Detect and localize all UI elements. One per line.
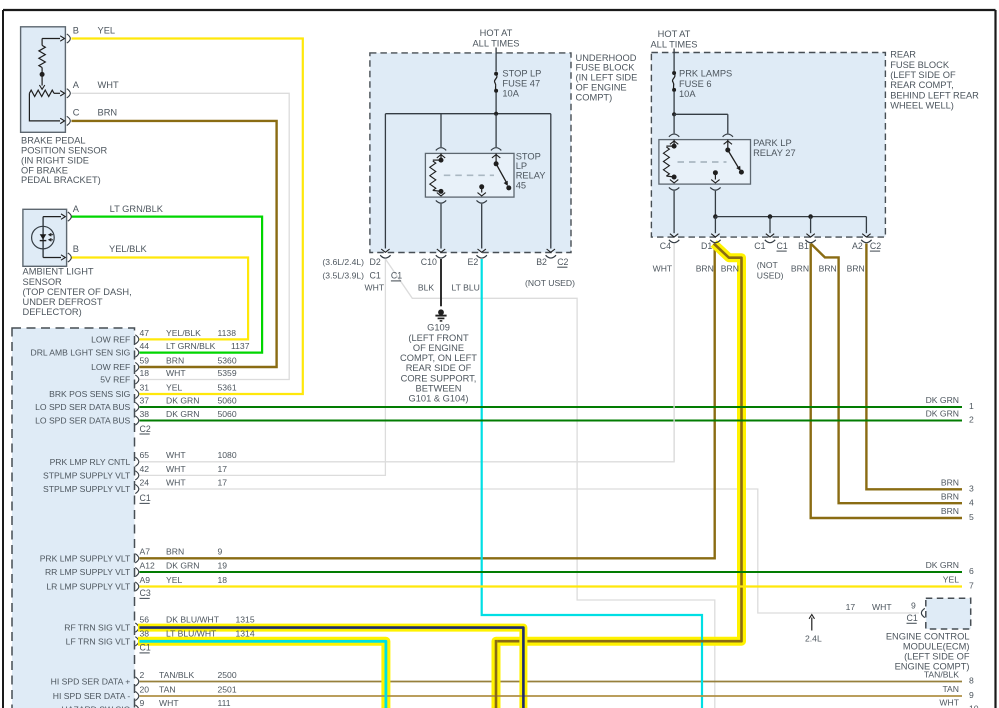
svg-text:(NOT USED): (NOT USED) <box>525 278 575 288</box>
svg-text:BRN: BRN <box>166 355 184 365</box>
svg-text:WHT: WHT <box>166 368 186 378</box>
svg-text:LF TRN SIG VLT: LF TRN SIG VLT <box>66 636 131 646</box>
svg-text:LT BLU/WHT: LT BLU/WHT <box>166 628 217 638</box>
svg-text:TAN: TAN <box>942 684 959 694</box>
svg-text:BRK POS SENS SIG: BRK POS SENS SIG <box>49 389 131 399</box>
svg-text:BRN: BRN <box>941 506 959 516</box>
svg-text:RF TRN SIG VLT: RF TRN SIG VLT <box>64 623 131 633</box>
svg-text:BRN: BRN <box>166 547 184 557</box>
svg-text:FUSE 47: FUSE 47 <box>502 79 540 89</box>
svg-text:HAZARD SW SIG: HAZARD SW SIG <box>62 705 131 708</box>
svg-text:WHT: WHT <box>939 698 959 708</box>
svg-text:BRN: BRN <box>791 264 809 274</box>
svg-text:COMPT): COMPT) <box>576 92 613 102</box>
svg-text:WHT: WHT <box>872 602 892 612</box>
svg-text:WHT: WHT <box>166 450 186 460</box>
svg-text:44: 44 <box>140 341 150 351</box>
svg-text:MODULE(ECM): MODULE(ECM) <box>903 642 970 652</box>
svg-text:BETWEEN: BETWEEN <box>416 384 462 394</box>
svg-text:45: 45 <box>516 180 526 190</box>
svg-text:DK GRN: DK GRN <box>166 560 199 570</box>
svg-text:1080: 1080 <box>218 450 237 460</box>
svg-text:YEL/BLK: YEL/BLK <box>166 328 201 338</box>
svg-text:STOP: STOP <box>516 151 541 161</box>
svg-text:PARK LP: PARK LP <box>753 138 792 148</box>
svg-text:WHEEL WELL): WHEEL WELL) <box>890 101 954 111</box>
svg-text:C1: C1 <box>777 241 788 251</box>
svg-text:C1: C1 <box>907 613 918 623</box>
svg-text:ALL TIMES: ALL TIMES <box>650 39 697 49</box>
svg-text:ENGINE CONTROL: ENGINE CONTROL <box>886 632 970 642</box>
svg-text:A2: A2 <box>852 241 863 251</box>
svg-text:(TOP CENTER OF DASH,: (TOP CENTER OF DASH, <box>23 287 132 297</box>
svg-text:D1: D1 <box>701 241 712 251</box>
svg-text:31: 31 <box>140 382 150 392</box>
svg-text:37: 37 <box>140 395 150 405</box>
svg-text:WHT: WHT <box>98 80 119 90</box>
svg-text:9: 9 <box>969 690 974 700</box>
svg-text:UNDERHOOD: UNDERHOOD <box>576 53 637 63</box>
svg-text:(LEFT SIDE OF: (LEFT SIDE OF <box>904 652 970 662</box>
svg-text:C1: C1 <box>391 271 402 281</box>
svg-text:5359: 5359 <box>218 368 237 378</box>
svg-text:1137: 1137 <box>231 341 250 351</box>
svg-text:17: 17 <box>846 602 856 612</box>
svg-text:LO SPD SER DATA BUS: LO SPD SER DATA BUS <box>35 402 130 412</box>
svg-text:24: 24 <box>140 477 150 487</box>
svg-text:1314: 1314 <box>236 628 255 638</box>
svg-text:HOT AT: HOT AT <box>658 29 691 39</box>
svg-text:YEL: YEL <box>166 382 182 392</box>
svg-text:YEL: YEL <box>98 26 116 36</box>
svg-text:C1: C1 <box>370 271 381 281</box>
svg-text:TAN: TAN <box>159 684 176 694</box>
svg-text:18: 18 <box>218 575 228 585</box>
svg-text:BRN: BRN <box>98 108 118 118</box>
svg-text:SENSOR: SENSOR <box>23 277 63 287</box>
svg-text:ENGINE COMPT): ENGINE COMPT) <box>895 662 970 672</box>
svg-text:BRAKE PEDAL: BRAKE PEDAL <box>21 136 86 146</box>
svg-text:B2: B2 <box>536 257 547 267</box>
svg-text:BRN: BRN <box>941 491 959 501</box>
svg-text:19: 19 <box>218 560 228 570</box>
svg-text:STPLMP SUPPLY VLT: STPLMP SUPPLY VLT <box>43 470 131 480</box>
svg-text:REAR SIDE OF: REAR SIDE OF <box>406 363 472 373</box>
svg-text:2: 2 <box>969 415 974 425</box>
svg-text:LR LMP SUPPLY VLT: LR LMP SUPPLY VLT <box>46 582 131 592</box>
svg-text:WHT: WHT <box>166 464 186 474</box>
svg-text:REAR COMPT,: REAR COMPT, <box>890 80 954 90</box>
svg-text:4: 4 <box>969 497 974 507</box>
svg-text:C2: C2 <box>557 257 568 267</box>
svg-text:A7: A7 <box>140 547 151 557</box>
svg-text:C3: C3 <box>140 588 151 598</box>
svg-text:38: 38 <box>140 409 150 419</box>
svg-text:1138: 1138 <box>218 328 237 338</box>
svg-text:YEL: YEL <box>943 575 959 585</box>
svg-text:2.4L: 2.4L <box>805 634 822 644</box>
svg-text:BEHIND LEFT REAR: BEHIND LEFT REAR <box>890 90 979 100</box>
svg-text:D2: D2 <box>370 257 381 267</box>
svg-text:PRK LAMPS: PRK LAMPS <box>679 69 732 79</box>
svg-text:LO SPD SER DATA BUS: LO SPD SER DATA BUS <box>35 416 130 426</box>
svg-text:ALL TIMES: ALL TIMES <box>472 38 519 48</box>
svg-text:5361: 5361 <box>218 382 237 392</box>
svg-text:38: 38 <box>140 628 150 638</box>
svg-text:REAR: REAR <box>890 50 916 60</box>
svg-text:CORE SUPPORT,: CORE SUPPORT, <box>401 373 477 383</box>
svg-text:FUSE 6: FUSE 6 <box>679 79 712 89</box>
svg-text:DK GRN: DK GRN <box>166 409 199 419</box>
svg-text:C1: C1 <box>140 643 151 653</box>
svg-text:RELAY: RELAY <box>516 171 546 181</box>
svg-text:G109: G109 <box>427 323 450 333</box>
svg-text:2500: 2500 <box>218 670 237 680</box>
svg-text:FUSE BLOCK: FUSE BLOCK <box>890 60 950 70</box>
svg-text:59: 59 <box>140 355 150 365</box>
svg-text:PEDAL BRACKET): PEDAL BRACKET) <box>21 175 101 185</box>
svg-text:FUSE BLOCK: FUSE BLOCK <box>576 63 636 73</box>
svg-text:G101 & G104): G101 & G104) <box>409 394 469 404</box>
svg-text:HI SPD SER DATA +: HI SPD SER DATA + <box>51 677 131 687</box>
svg-text:HI SPD SER DATA -: HI SPD SER DATA - <box>53 691 131 701</box>
svg-text:(IN LEFT SIDE: (IN LEFT SIDE <box>576 73 638 83</box>
svg-text:OF ENGINE: OF ENGINE <box>413 343 464 353</box>
svg-text:STPLMP SUPPLY VLT: STPLMP SUPPLY VLT <box>43 484 131 494</box>
svg-text:PRK LMP RLY CNTL: PRK LMP RLY CNTL <box>50 457 131 467</box>
svg-text:17: 17 <box>218 477 228 487</box>
svg-text:DEFLECTOR): DEFLECTOR) <box>23 307 82 317</box>
svg-text:(LEFT SIDE OF: (LEFT SIDE OF <box>890 70 956 80</box>
svg-text:YEL: YEL <box>166 575 182 585</box>
svg-text:5060: 5060 <box>218 409 237 419</box>
svg-text:BRN: BRN <box>847 264 865 274</box>
svg-text:BRN: BRN <box>721 264 739 274</box>
svg-text:B1: B1 <box>798 241 809 251</box>
svg-text:20: 20 <box>140 684 150 694</box>
svg-text:1: 1 <box>969 401 974 411</box>
svg-text:DK BLU/WHT: DK BLU/WHT <box>166 615 220 625</box>
svg-text:18: 18 <box>140 368 150 378</box>
svg-text:6: 6 <box>969 566 974 576</box>
svg-text:42: 42 <box>140 464 150 474</box>
svg-text:HOT AT: HOT AT <box>480 28 513 38</box>
svg-text:BRN: BRN <box>819 264 837 274</box>
svg-text:B: B <box>73 26 79 36</box>
svg-text:C2: C2 <box>140 424 151 434</box>
svg-text:DRL AMB LGHT SEN SIG: DRL AMB LGHT SEN SIG <box>30 348 130 358</box>
svg-text:3: 3 <box>969 484 974 494</box>
svg-text:(NOT: (NOT <box>757 260 779 270</box>
svg-text:BLK: BLK <box>418 283 435 293</box>
svg-text:DK GRN: DK GRN <box>926 395 959 405</box>
svg-text:COMPT, ON LEFT: COMPT, ON LEFT <box>400 353 477 363</box>
svg-text:2: 2 <box>140 670 145 680</box>
svg-text:LT GRN/BLK: LT GRN/BLK <box>110 204 164 214</box>
svg-text:111: 111 <box>218 698 231 708</box>
svg-text:A: A <box>73 204 80 214</box>
svg-text:(3.5L/3.9L): (3.5L/3.9L) <box>322 271 364 281</box>
svg-text:LT GRN/BLK: LT GRN/BLK <box>166 341 216 351</box>
svg-text:USED): USED) <box>757 271 784 281</box>
svg-text:LP: LP <box>516 161 527 171</box>
svg-text:C10: C10 <box>421 257 437 267</box>
svg-text:C4: C4 <box>660 241 671 251</box>
svg-text:(LEFT FRONT: (LEFT FRONT <box>408 333 469 343</box>
svg-text:5060: 5060 <box>218 395 237 405</box>
svg-text:BRN: BRN <box>941 478 959 488</box>
svg-text:DK GRN: DK GRN <box>926 560 959 570</box>
svg-text:OF BRAKE: OF BRAKE <box>21 165 68 175</box>
svg-text:A12: A12 <box>140 560 156 570</box>
svg-text:DK GRN: DK GRN <box>926 409 959 419</box>
svg-text:RR LMP SUPPLY VLT: RR LMP SUPPLY VLT <box>45 567 131 577</box>
svg-text:A9: A9 <box>140 575 151 585</box>
svg-text:A: A <box>73 80 80 90</box>
svg-text:UNDER DEFROST: UNDER DEFROST <box>23 297 103 307</box>
svg-text:47: 47 <box>140 328 150 338</box>
svg-text:2501: 2501 <box>218 684 237 694</box>
svg-text:OF ENGINE: OF ENGINE <box>576 83 627 93</box>
svg-text:10A: 10A <box>502 89 519 99</box>
svg-text:LOW REF: LOW REF <box>91 334 130 344</box>
svg-text:C1: C1 <box>140 493 151 503</box>
svg-text:5: 5 <box>969 512 974 522</box>
svg-text:8: 8 <box>969 676 974 686</box>
svg-text:RELAY 27: RELAY 27 <box>753 148 796 158</box>
svg-text:17: 17 <box>218 464 228 474</box>
svg-text:AMBIENT LIGHT: AMBIENT LIGHT <box>23 267 94 277</box>
svg-text:LT BLU: LT BLU <box>452 283 480 293</box>
svg-text:10: 10 <box>969 704 979 708</box>
svg-text:B: B <box>73 244 79 254</box>
svg-text:C: C <box>73 108 80 118</box>
svg-text:9: 9 <box>140 698 145 708</box>
svg-text:C2: C2 <box>870 241 881 251</box>
svg-text:STOP LP: STOP LP <box>502 69 541 79</box>
svg-text:BRN: BRN <box>696 264 714 274</box>
svg-text:WHT: WHT <box>365 283 385 293</box>
svg-text:C1: C1 <box>754 241 765 251</box>
svg-text:YEL/BLK: YEL/BLK <box>109 244 148 254</box>
svg-text:E2: E2 <box>468 257 479 267</box>
svg-text:(IN RIGHT SIDE: (IN RIGHT SIDE <box>21 155 89 165</box>
svg-text:5V REF: 5V REF <box>100 375 130 385</box>
svg-text:9: 9 <box>218 547 223 557</box>
svg-text:POSITION SENSOR: POSITION SENSOR <box>21 146 108 156</box>
svg-text:10A: 10A <box>679 89 696 99</box>
svg-text:9: 9 <box>911 601 916 611</box>
svg-text:PRK LMP SUPPLY VLT: PRK LMP SUPPLY VLT <box>40 553 131 563</box>
svg-text:DK GRN: DK GRN <box>166 395 199 405</box>
svg-text:(3.6L/2.4L): (3.6L/2.4L) <box>322 257 364 267</box>
svg-text:WHT: WHT <box>166 477 186 487</box>
svg-text:WHT: WHT <box>653 264 673 274</box>
svg-text:LOW REF: LOW REF <box>91 362 130 372</box>
svg-text:7: 7 <box>969 581 974 591</box>
svg-text:WHT: WHT <box>159 698 179 708</box>
svg-text:56: 56 <box>140 615 150 625</box>
svg-text:5360: 5360 <box>218 355 237 365</box>
svg-text:65: 65 <box>140 450 150 460</box>
svg-text:1315: 1315 <box>236 615 255 625</box>
svg-text:TAN/BLK: TAN/BLK <box>159 670 194 680</box>
